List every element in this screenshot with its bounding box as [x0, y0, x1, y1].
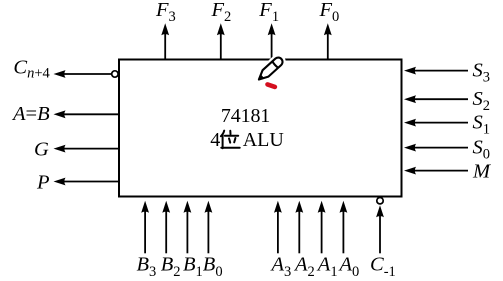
wire F2: [220, 33, 222, 60]
wire Cn+4: [63, 73, 112, 75]
arrowhead S2: [404, 95, 416, 103]
wire A2: [298, 207, 300, 253]
wire M: [413, 170, 468, 172]
svg-text:M: M: [472, 160, 492, 182]
wire P: [63, 181, 119, 183]
arrowhead F3: [161, 23, 169, 35]
arrowhead S3: [404, 67, 416, 75]
svg-text:A=B: A=B: [11, 103, 50, 125]
arrowhead Cn+4: [54, 70, 66, 78]
arrowhead A0: [340, 201, 348, 213]
svg-text:4: 4: [210, 129, 220, 151]
arrowhead B0: [205, 201, 213, 213]
arrowhead M: [404, 167, 416, 175]
wire F0: [327, 33, 329, 60]
wire S2: [413, 98, 468, 100]
wire A1: [321, 207, 323, 253]
red pen mark: [268, 84, 275, 87]
wire B2: [165, 207, 167, 253]
arrowhead B3: [141, 201, 149, 213]
wire S3: [413, 70, 468, 72]
wire S0: [413, 147, 468, 149]
label 4位ALU: [210, 129, 284, 151]
wire B0: [207, 207, 209, 253]
inverter bubble on C-1 input: [377, 198, 383, 204]
arrowhead S0: [404, 144, 416, 152]
wire A3: [277, 207, 279, 253]
arrowhead A3: [274, 201, 282, 213]
wire A0: [342, 207, 344, 253]
arrowhead B1: [184, 201, 192, 213]
arrowhead F1: [268, 23, 276, 35]
wire F1: [271, 33, 273, 60]
arrowhead G: [54, 145, 66, 153]
inverter bubble on Cn+4 output: [112, 71, 118, 77]
arrowhead S1: [404, 119, 416, 127]
pencil cursor icon: [259, 58, 283, 80]
wire S1: [413, 122, 468, 124]
svg-text:ALU: ALU: [243, 129, 285, 151]
svg-text:74181: 74181: [221, 105, 270, 127]
arrowhead A1: [318, 201, 326, 213]
arrowhead F2: [217, 23, 225, 35]
svg-text:P: P: [36, 171, 50, 193]
arrowhead A2: [295, 201, 303, 213]
wire F3: [164, 33, 166, 60]
arrowhead C-1: [376, 205, 384, 217]
arrowhead B2: [162, 201, 170, 213]
IC body box 74181: [119, 60, 402, 197]
wire C-1: [379, 212, 381, 253]
svg-text:G: G: [34, 139, 49, 161]
arrowhead F0: [324, 23, 332, 35]
wire G: [63, 148, 119, 150]
wire B3: [144, 207, 146, 253]
wire B1: [186, 207, 188, 253]
wire A=B: [63, 113, 119, 115]
arrowhead P: [54, 178, 66, 186]
arrowhead A=B: [54, 110, 66, 118]
